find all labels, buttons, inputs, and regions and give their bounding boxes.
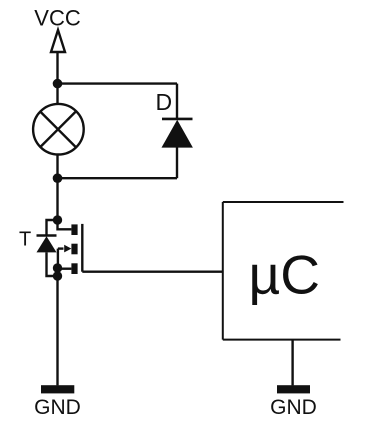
wire diode branch lower vertical: [176, 147, 178, 178]
lamp L1 (circle with X): [33, 104, 84, 155]
wire lamp bottom to transistor drain: [56, 155, 58, 220]
junction node lamp-top / diode branch: [53, 79, 63, 89]
wire top horizontal to diode branch: [58, 82, 178, 84]
wire microcontroller to ground: [291, 340, 293, 386]
wire drain down-right to channel: [58, 220, 72, 229]
wire gate to microcontroller: [82, 271, 223, 273]
op box microcontroller U1: [223, 202, 344, 340]
wire source to channel: [58, 268, 72, 270]
diode D (flyback, cathode up): [162, 119, 193, 148]
wire source to ground: [56, 276, 58, 385]
gate line: [81, 224, 83, 272]
wire bottom horizontal diode to lamp bottom: [58, 177, 178, 179]
channel bar drain segment: [71, 224, 77, 235]
channel bar body segment: [71, 244, 77, 255]
body diode triangle: [37, 236, 57, 252]
ground symbol left: [41, 385, 74, 393]
svg-text:T: T: [19, 229, 31, 251]
ground symbol right: [277, 385, 310, 393]
VCC supply arrow symbol: [51, 30, 65, 52]
svg-text:µC: µC: [249, 244, 320, 306]
junction node drain: [53, 215, 62, 224]
transistor T (N-MOSFET with body diode): [37, 215, 83, 280]
body diode cathode bar: [37, 234, 57, 236]
body arrow wire: [58, 247, 64, 249]
junction node source: [53, 263, 62, 272]
svg-text:GND: GND: [34, 396, 81, 419]
svg-text:VCC: VCC: [34, 6, 81, 31]
junction node source / body diode: [53, 271, 62, 280]
wire VCC arrow to lamp top: [56, 52, 58, 104]
junction node lamp-bottom / diode branch: [53, 173, 63, 183]
wire diode branch upper vertical: [176, 84, 178, 120]
channel bar source segment: [71, 263, 77, 274]
body arrowhead: [64, 245, 71, 253]
svg-text:GND: GND: [270, 396, 317, 419]
wire drain dot to body-diode cathode: [47, 220, 58, 236]
wire body-diode anode to source junction: [47, 252, 58, 276]
svg-text:D: D: [156, 89, 173, 115]
wire body arrow down to source junction: [57, 249, 59, 268]
